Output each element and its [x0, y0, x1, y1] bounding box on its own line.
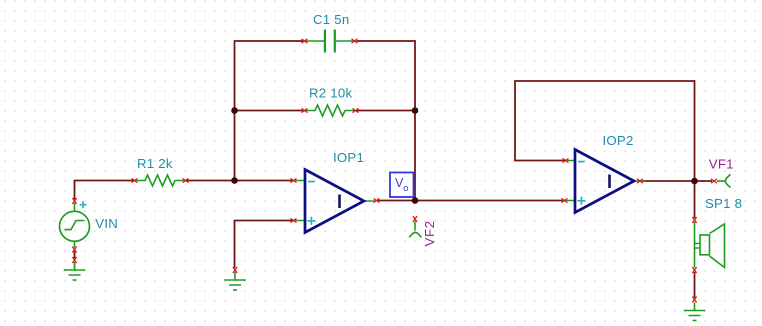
svg-text:SP1 8: SP1 8	[705, 196, 742, 211]
svg-text:o: o	[403, 183, 408, 194]
svg-text:VIN: VIN	[95, 216, 118, 231]
svg-text:IOP1: IOP1	[333, 150, 364, 165]
svg-text:VF1: VF1	[709, 157, 734, 172]
svg-text:VF2: VF2	[422, 220, 437, 246]
svg-text:IOP2: IOP2	[603, 133, 634, 148]
svg-text:R1 2k: R1 2k	[137, 156, 173, 171]
svg-text:R2 10k: R2 10k	[309, 85, 352, 100]
svg-text:C1 5n: C1 5n	[313, 12, 349, 27]
